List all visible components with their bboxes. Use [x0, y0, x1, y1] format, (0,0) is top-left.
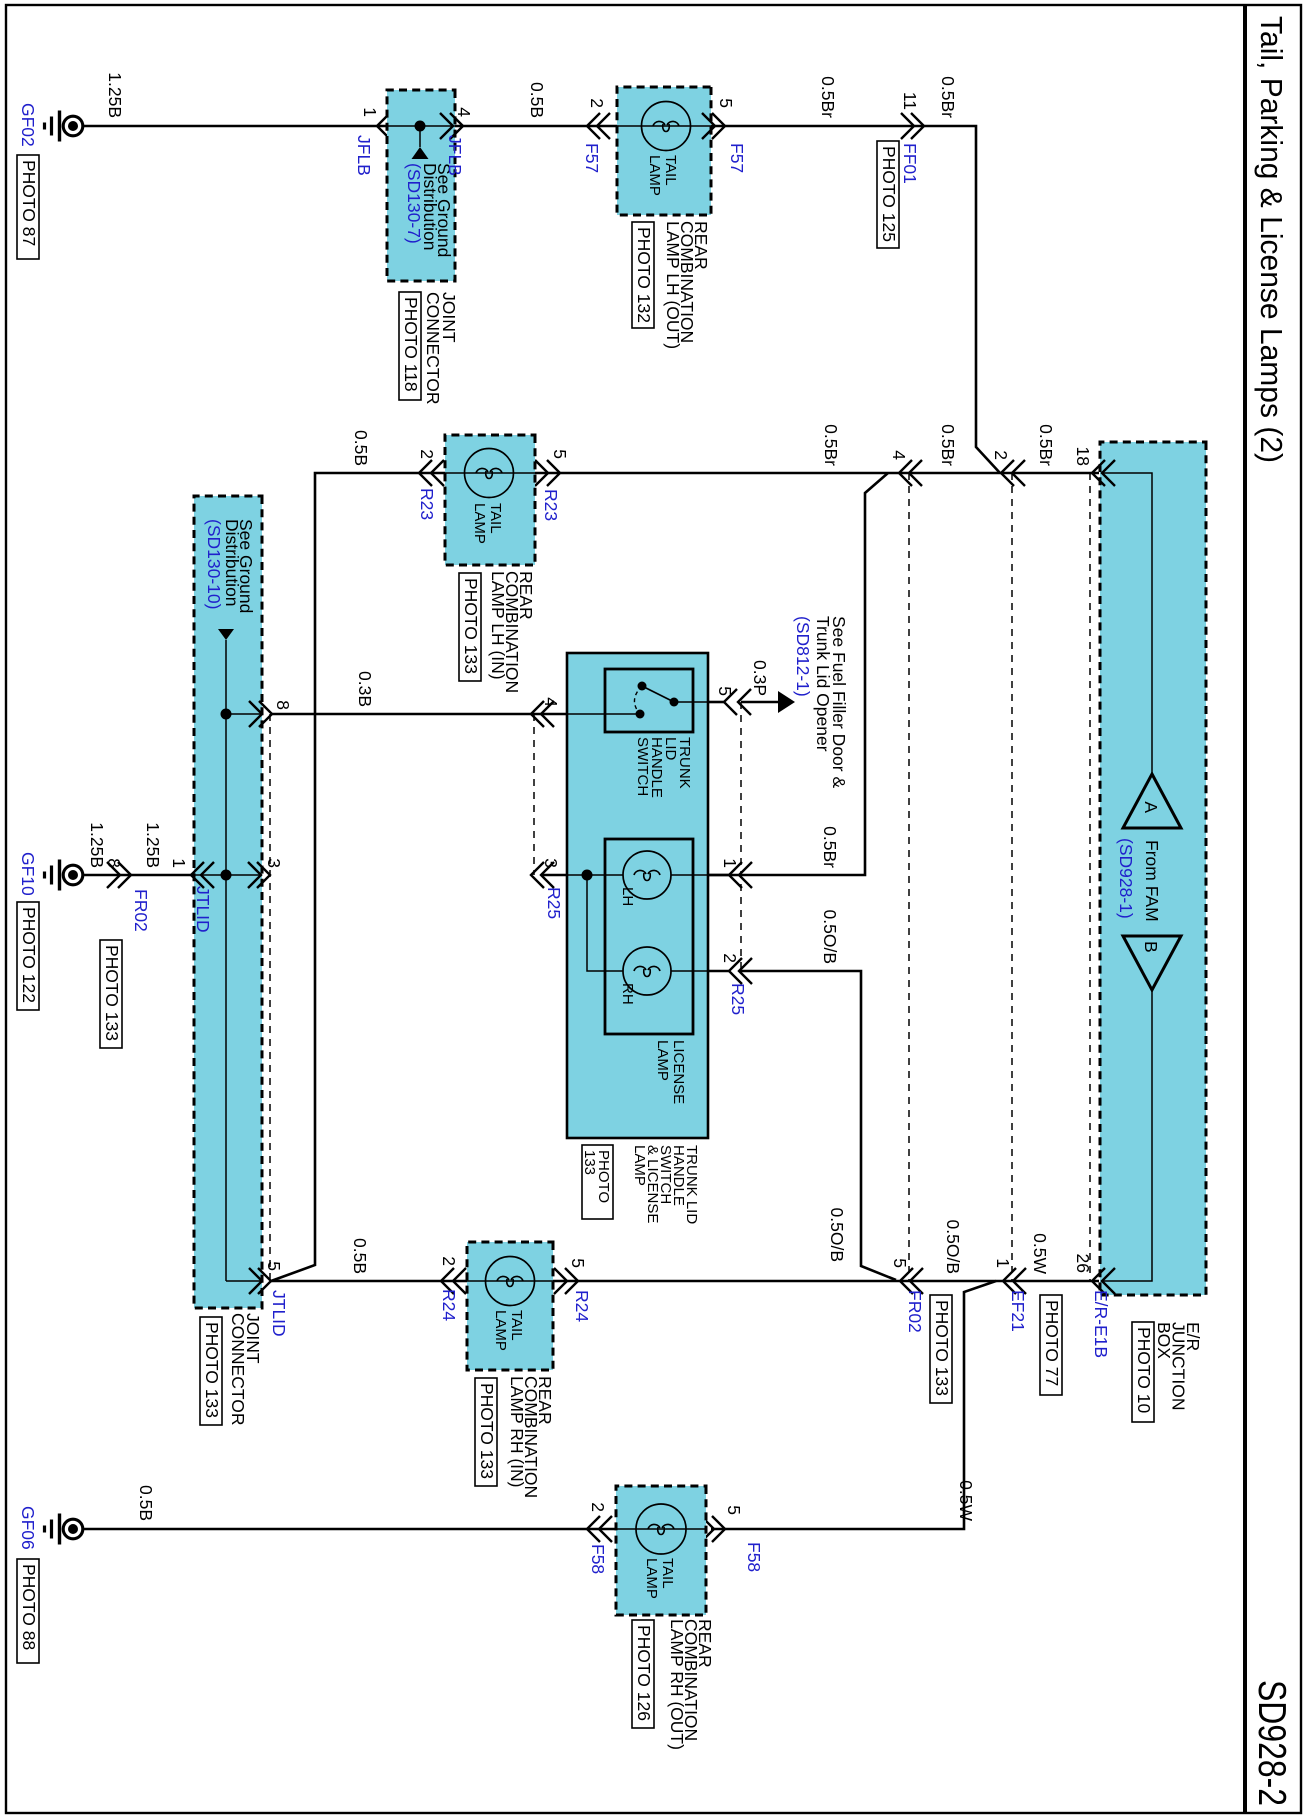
svg-text:0.5Br: 0.5Br [820, 826, 840, 868]
wire through R24 box [467, 1280, 553, 1282]
svg-text:1.25B: 1.25B [105, 72, 125, 118]
connector R23 pin 5 [535, 460, 560, 486]
svg-text:2: 2 [439, 1256, 459, 1266]
lamp symbol R23 tail lamp [465, 449, 514, 498]
svg-text:0.5B: 0.5B [350, 1238, 370, 1274]
label See Fuel Filler Door & Trunk Lid Opener [813, 616, 849, 788]
svg-text:R25: R25 [544, 887, 564, 919]
photo ref PHOTO 132 [632, 222, 654, 328]
svg-text:2: 2 [587, 98, 607, 108]
svg-text:LAMP: LAMP [471, 503, 488, 544]
wire through JFLB box [387, 125, 455, 127]
svg-text:0.5Br: 0.5Br [821, 424, 841, 466]
svg-text:F57: F57 [582, 143, 602, 173]
photo ref PHOTO 133 (FR02 pin5) [930, 1295, 952, 1403]
svg-text:26: 26 [1073, 1254, 1093, 1273]
label REAR COMBINATION LAMP RH (IN) [507, 1376, 555, 1498]
wire inside E/R box from pin 18 to triangle A [1101, 473, 1152, 773]
connector JTLID pin 8 [249, 701, 272, 727]
svg-text:GF06: GF06 [18, 1506, 38, 1550]
svg-text:GF10: GF10 [18, 852, 38, 896]
label TRUNK LID HANDLE SWITCH (inner) [634, 737, 693, 798]
svg-text:1: 1 [169, 858, 189, 868]
wire E/R pin 18 down through R23 to JTLID (0.5Br/0.5B) [535, 472, 1099, 475]
svg-text:R24: R24 [439, 1289, 459, 1321]
photo ref PHOTO 133 (FR02) [100, 940, 122, 1048]
connector R25 pin 1 [729, 862, 752, 888]
connector R25 pin 5 (switch) [724, 689, 751, 715]
wire 0.3B JTLID pin8 up to switch [272, 713, 567, 716]
svg-text:R24: R24 [572, 1290, 592, 1322]
wire RH lamp to R25 pin 2 [671, 970, 708, 972]
photo ref PHOTO 122 [17, 902, 39, 1010]
wire R25 pin3 into license lamps [541, 874, 567, 877]
label TRUNK LID HANDLE SWITCH & LICENSE LAMP [631, 1145, 700, 1224]
label JOINT CONNECTOR (JFLB) [423, 292, 459, 404]
svg-text:2: 2 [417, 449, 437, 459]
dashed connector line FR02 (pins 4-5) [908, 473, 910, 1281]
tail lamp box R24 (rear combination lamp RH in) [467, 1242, 553, 1370]
svg-text:PHOTO 132: PHOTO 132 [634, 227, 654, 323]
branch wire 0.5W to tail lamp RH out [711, 1281, 996, 1529]
svg-text:E/R-E1B: E/R-E1B [1091, 1290, 1111, 1358]
license lamp inner box [605, 839, 693, 1034]
connector E/R-E1B pin 18 [1092, 460, 1115, 486]
svg-text:133: 133 [581, 1150, 598, 1175]
svg-text:LAMP LH (OUT): LAMP LH (OUT) [663, 221, 683, 349]
connector EF21 pin 1 [1003, 1268, 1026, 1294]
photo ref PHOTO 10 [1132, 1322, 1154, 1422]
svg-text:1: 1 [720, 858, 740, 868]
connector R25 pin 2 [729, 958, 752, 984]
junction dot in JFLB [415, 121, 426, 132]
svg-text:GF02: GF02 [18, 103, 38, 147]
wire switch to pin 5 [674, 701, 708, 703]
tail lamp box R23 (rear combination lamp LH in) [445, 435, 535, 565]
lamp symbol F58 tail lamp [636, 1504, 686, 1554]
photo ref PHOTO 133 (trunk) [581, 1145, 613, 1219]
svg-text:0.5Br: 0.5Br [938, 76, 958, 118]
wire JTLID pin 5 stub [226, 1280, 262, 1282]
wire JTLID pins 3-1 through box [194, 874, 262, 876]
svg-text:5: 5 [264, 1261, 284, 1271]
dashed connector line R25 (pins 5-1-2) [740, 702, 742, 971]
svg-text:From FAM: From FAM [1142, 840, 1162, 922]
dashed connector line JTLID (pins 8-3-5) [269, 714, 271, 1281]
svg-text:F58: F58 [588, 1544, 608, 1574]
svg-text:PHOTO 77: PHOTO 77 [1042, 1300, 1062, 1386]
connector JFLB pin 1 [377, 113, 401, 139]
svg-text:JFLB: JFLB [445, 135, 465, 176]
svg-text:LAMP LH (IN): LAMP LH (IN) [488, 571, 508, 680]
svg-text:A: A [1141, 801, 1161, 813]
svg-text:5: 5 [716, 98, 736, 108]
switch contact dots [636, 682, 679, 719]
svg-text:PHOTO 87: PHOTO 87 [19, 160, 39, 246]
wire R25 pin2 up and over to C5 (0.5O/B) [739, 971, 896, 1280]
svg-text:0.3P: 0.3P [750, 660, 770, 696]
photo ref PHOTO 133 (R23) [459, 573, 481, 681]
lamp symbol R24 tail lamp [486, 1257, 535, 1306]
svg-text:LAMP RH (IN): LAMP RH (IN) [507, 1376, 527, 1488]
photo ref PHOTO 125 [877, 141, 899, 248]
lamp symbol license RH [623, 947, 671, 995]
wire LH lamp to R25 pin 1 [671, 874, 708, 876]
connector JTLID pin 5 [249, 1268, 271, 1294]
lamp symbol F57 tail lamp [642, 102, 691, 151]
svg-text:LICENSE: LICENSE [670, 1040, 687, 1104]
svg-text:LAMP: LAMP [631, 1145, 648, 1186]
tail lamp box F58 (rear combination lamp RH out) [616, 1486, 706, 1615]
svg-text:0.5B: 0.5B [527, 82, 547, 118]
svg-text:1.25B: 1.25B [87, 822, 107, 868]
label REAR COMBINATION LAMP LH (IN) [488, 571, 536, 693]
connector E/R-E1B pin 26 [1092, 1268, 1115, 1294]
label REAR COMBINATION LAMP RH (OUT) [667, 1619, 715, 1750]
connector F57 pin 5 [702, 113, 725, 139]
branch wire to R25 pin 1 (0.5Br) [708, 473, 888, 875]
label TAIL LAMP (R23) [471, 503, 504, 544]
label TAIL LAMP (F57) [646, 155, 679, 196]
label LICENSE LAMP [654, 1040, 687, 1104]
connector R25 pin 3 [531, 862, 554, 888]
photo ref PHOTO 133 (JTLID) [200, 1317, 222, 1425]
wire GF02 ground to FF01 corner and over to E/R pin 18 column (1.25B/0.5B/0.5Br) [83, 126, 1000, 473]
svg-text:TAIL: TAIL [487, 503, 504, 534]
svg-text:0.5O/B: 0.5O/B [827, 1208, 847, 1262]
photo ref PHOTO 118 [399, 292, 421, 400]
svg-text:1: 1 [993, 1258, 1013, 1268]
label REAR COMBINATION LAMP LH (OUT) [663, 221, 711, 349]
svg-text:PHOTO 133: PHOTO 133 [932, 1300, 952, 1396]
connector R25 pin 4 [531, 701, 554, 727]
svg-text:1.25B: 1.25B [143, 822, 163, 868]
svg-text:3: 3 [264, 858, 284, 868]
svg-text:SD928-2: SD928-2 [1250, 1680, 1293, 1806]
svg-text:FF01: FF01 [900, 143, 920, 184]
connector FR02 pin 5 [900, 1268, 923, 1294]
connector F58 pin 5 [701, 1516, 725, 1542]
svg-text:8: 8 [104, 858, 124, 868]
svg-text:LAMP: LAMP [646, 155, 663, 196]
svg-text:PHOTO 88: PHOTO 88 [19, 1564, 39, 1650]
ground distribution triangle (JTLID) [218, 629, 234, 640]
bus wire inside JTLID [225, 640, 227, 1281]
svg-text:(SD928-1): (SD928-1) [1116, 838, 1136, 919]
E/R junction box [1100, 442, 1206, 1295]
svg-text:TAIL: TAIL [659, 1558, 676, 1589]
connector FR02 pin 8 [107, 862, 131, 888]
ground distribution stub and triangle (JFLB) [412, 126, 429, 159]
label JOINT CONNECTOR (JTLID) [228, 1313, 263, 1425]
svg-text:11: 11 [900, 92, 920, 110]
joint connector JFLB box [387, 90, 455, 281]
svg-text:TAIL: TAIL [508, 1310, 525, 1341]
wire JTLID pin 8 stub [226, 713, 262, 715]
svg-text:2: 2 [588, 1502, 608, 1512]
svg-text:F58: F58 [744, 1542, 764, 1572]
svg-text:0.3B: 0.3B [355, 671, 375, 707]
svg-text:R23: R23 [417, 488, 437, 520]
svg-text:PHOTO 118: PHOTO 118 [401, 297, 421, 392]
svg-text:PHOTO 133: PHOTO 133 [461, 578, 481, 674]
junction dot JTLID pins 1/3 [221, 870, 232, 881]
svg-text:Tail, Parking & License Lamps: Tail, Parking & License Lamps (2) [1254, 16, 1289, 463]
svg-text:RH: RH [619, 983, 636, 1005]
wire F58 pin2 to GF06 ground (0.5B) [83, 1528, 616, 1531]
svg-text:0.5O/B: 0.5O/B [820, 910, 840, 964]
svg-text:R25: R25 [728, 983, 748, 1015]
svg-text:2: 2 [991, 450, 1011, 460]
junction dot JTLID pin 8 [221, 709, 232, 720]
wire JTLID pin1 to GF10 ground (1.25B) [83, 874, 194, 877]
connector JTLID pin 3 [248, 862, 270, 888]
wire through F58 box [616, 1528, 706, 1530]
svg-text:5: 5 [715, 686, 735, 696]
svg-text:FR02: FR02 [131, 889, 151, 932]
dashed connector line E/R-E1B (pins 18-26) [1089, 473, 1091, 1281]
svg-text:PHOTO 125: PHOTO 125 [879, 146, 899, 242]
svg-text:4: 4 [541, 697, 561, 707]
svg-text:3: 3 [541, 858, 561, 868]
dashed connector line R25 (pins 4-3) [533, 714, 535, 875]
connector JFLB pin 4 [440, 113, 463, 139]
component box trunk lid handle switch & license lamp [567, 653, 708, 1138]
ground GF06 [45, 1514, 83, 1545]
svg-text:4: 4 [454, 107, 474, 117]
label See Ground Distribution (SD130-7) [420, 163, 454, 257]
ground GF02 [45, 111, 83, 142]
svg-text:PHOTO 133: PHOTO 133 [202, 1322, 222, 1418]
svg-text:(SD812-1): (SD812-1) [793, 616, 813, 697]
svg-text:LAMP: LAMP [492, 1310, 509, 1351]
junction dot license feed [582, 870, 593, 881]
svg-text:PHOTO 126: PHOTO 126 [634, 1625, 654, 1721]
wire through F57 lamp box [617, 125, 711, 127]
connector F58 pin 2 [587, 1516, 612, 1542]
svg-text:PHOTO 10: PHOTO 10 [1134, 1327, 1154, 1414]
wire E/R pin 26 down through EF21/FR02/R24 to JTLID pin 5 [553, 1280, 1099, 1283]
svg-text:TAIL: TAIL [662, 155, 679, 186]
wire 0.3P to fuel filler opener [741, 701, 778, 704]
svg-text:BOX: BOX [1154, 1322, 1174, 1359]
connector R23 pin 2 [419, 460, 444, 486]
photo ref PHOTO 133 (R24) [475, 1378, 497, 1486]
svg-text:1: 1 [360, 107, 380, 117]
svg-text:(SD130-10): (SD130-10) [204, 519, 224, 609]
label TAIL LAMP (F58) [643, 1558, 676, 1599]
ground GF10 [45, 860, 83, 891]
svg-text:5: 5 [550, 449, 570, 459]
svg-text:F57: F57 [727, 143, 747, 173]
svg-text:0.5Br: 0.5Br [938, 424, 958, 466]
svg-text:PHOTO 122: PHOTO 122 [19, 907, 39, 1003]
svg-text:Distribution: Distribution [222, 519, 242, 607]
svg-text:0.5O/B: 0.5O/B [943, 1220, 963, 1274]
svg-text:4: 4 [889, 450, 909, 460]
svg-text:0.5B: 0.5B [136, 1485, 156, 1521]
svg-text:5: 5 [890, 1258, 910, 1268]
connector F57 pin 2 [587, 113, 610, 139]
E/R junction box label [1154, 1322, 1203, 1410]
svg-text:JFLB: JFLB [354, 135, 374, 176]
svg-text:JTLID: JTLID [269, 1290, 289, 1337]
svg-text:(SD130-7): (SD130-7) [404, 163, 424, 244]
svg-text:CONNECTOR: CONNECTOR [228, 1313, 248, 1425]
tail lamp box (rear combination lamp LH out) [617, 87, 711, 215]
wire inside E/R box from triangle B to pin 26 [1101, 990, 1152, 1281]
label TAIL LAMP (R24) [492, 1310, 525, 1351]
connector R24 pin 2 [441, 1268, 466, 1294]
photo ref PHOTO 126 [632, 1620, 654, 1728]
trunk lid switch inner box [605, 669, 693, 732]
connector FF01 pin 11 [901, 113, 924, 139]
wire through R23 box [445, 472, 535, 474]
svg-text:FR02: FR02 [905, 1290, 925, 1333]
triangle B (from FAM) [1123, 936, 1181, 990]
photo ref PHOTO 77 [1040, 1295, 1062, 1395]
svg-text:EF21: EF21 [1008, 1290, 1028, 1332]
svg-text:SWITCH: SWITCH [634, 737, 651, 796]
svg-text:PHOTO 133: PHOTO 133 [477, 1383, 497, 1479]
connector R24 pin 5 [554, 1268, 578, 1294]
svg-text:B: B [1141, 941, 1161, 953]
svg-text:CONNECTOR: CONNECTOR [423, 292, 443, 404]
triangle A (from FAM) [1123, 774, 1181, 828]
svg-text:LAMP: LAMP [654, 1040, 671, 1081]
svg-text:8: 8 [273, 700, 293, 710]
svg-text:5: 5 [724, 1505, 744, 1515]
switch travel arc (dashed) [634, 686, 642, 714]
connector FR02 pin 4 [899, 460, 922, 486]
photo ref PHOTO 87 [17, 155, 39, 259]
svg-text:0.5W: 0.5W [1030, 1233, 1050, 1274]
svg-text:0.5Br: 0.5Br [818, 76, 838, 118]
dashed connector line EF21 (pins 2-1) [1011, 473, 1013, 1281]
switch blade [642, 686, 674, 702]
svg-text:LH: LH [619, 887, 636, 906]
svg-text:LAMP: LAMP [643, 1558, 660, 1599]
svg-text:PHOTO 133: PHOTO 133 [102, 945, 122, 1041]
svg-text:18: 18 [1073, 447, 1093, 466]
connector JTLID pin 1 [191, 862, 214, 888]
svg-text:0.5Br: 0.5Br [1036, 424, 1056, 466]
svg-text:LAMP RH (OUT): LAMP RH (OUT) [667, 1619, 687, 1750]
svg-text:Trunk Lid Opener: Trunk Lid Opener [813, 616, 833, 752]
branch wire to RH lamp [587, 875, 623, 971]
svg-text:5: 5 [568, 1258, 588, 1268]
photo ref PHOTO 88 [17, 1559, 39, 1663]
svg-text:R23: R23 [541, 489, 561, 521]
svg-text:2: 2 [720, 953, 740, 963]
svg-text:JTLID: JTLID [193, 886, 213, 933]
triangle to SD812-1 [778, 691, 795, 713]
connector EF21 pin 2 [1001, 460, 1025, 486]
joint connector JTLID box [194, 496, 262, 1308]
svg-text:0.5W: 0.5W [956, 1480, 976, 1521]
label See Ground Distribution (SD130-10) [222, 519, 256, 613]
svg-text:0.5B: 0.5B [351, 430, 371, 466]
lamp symbol license LH [623, 851, 671, 899]
